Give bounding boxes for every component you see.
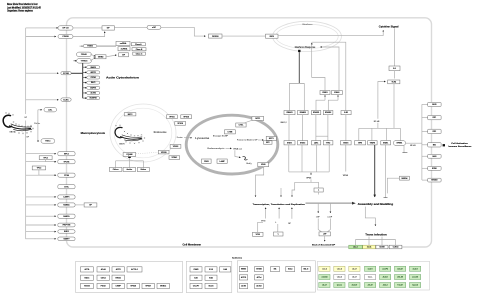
- wire to TIM-1: [38, 140, 39, 142]
- gene box IFIT1 on membrane: [428, 115, 441, 119]
- svg-text:PDCD: PDCD: [101, 286, 107, 288]
- gene box ssRNA: [116, 41, 130, 45]
- legend1 gene box PDCD y283.4: [97, 283, 109, 288]
- svg-text:Cell Activation: Cell Activation: [451, 142, 468, 145]
- gene box NPC1 on membrane: [58, 152, 75, 156]
- gene box NEDD4: [400, 176, 410, 180]
- gene box dsRNA: [118, 47, 130, 51]
- legend4 box r2c4: [365, 275, 376, 280]
- svg-text:Macropinocytosis: Macropinocytosis: [81, 131, 106, 135]
- gene box LAMP1 on membrane: [58, 195, 75, 199]
- gene box GP sensed: [119, 53, 129, 57]
- svg-text:CD63: CD63: [204, 161, 209, 163]
- legend3 gene box NEMO y266.5: [239, 267, 247, 272]
- svg-text:TPC2: TPC2: [37, 168, 42, 170]
- wire up arrow into transcription at x265.6: [265, 208, 267, 214]
- gene box sGP: [147, 25, 161, 29]
- legend4 box r2c5: [380, 275, 391, 280]
- svg-text:ACTA: ACTA: [84, 268, 90, 271]
- svg-text:CHM1: CHM1: [193, 269, 198, 271]
- wire converge arrow to VP35: [310, 172, 312, 175]
- gene box VAMP7 on membrane: [58, 237, 75, 241]
- svg-text:STX6B: STX6B: [256, 269, 262, 271]
- svg-text:Fusion: Fusion: [177, 137, 183, 139]
- wire IFNA1 from IFNGR2: [328, 100, 338, 110]
- wire bracket to IFITM1: [422, 167, 428, 169]
- svg-text:ITGAV: ITGAV: [81, 53, 88, 56]
- gene box VPS16: [181, 115, 192, 119]
- svg-text:VPS11: VPS11: [169, 116, 175, 118]
- gene box trans green: [349, 245, 362, 249]
- up arrowhead at interferon elbow: [311, 43, 313, 45]
- svg-text:GP 1/2: GP 1/2: [62, 28, 69, 30]
- wire NF-kB up branch into TLR4: [378, 82, 386, 119]
- gene box VPS11: [167, 115, 178, 119]
- gene box lysosome bottom 1: [202, 159, 212, 163]
- svg-text:Endosomolysis: Endosomolysis: [208, 148, 225, 150]
- wire trans bracket drop x382.0: [381, 240, 383, 246]
- wire L elbow: [277, 224, 279, 232]
- svg-text:CHMP: CHMP: [116, 286, 122, 288]
- legend3 gene box ACTB y283.4: [239, 283, 247, 288]
- svg-text:RAB7A: RAB7A: [63, 215, 70, 218]
- wire NFkB bracket: [359, 127, 401, 129]
- wire DDX58 to IRF3: [222, 35, 266, 37]
- wire thick line drop ssGP: [329, 203, 331, 213]
- wire CD209 elbow up to GP box: [73, 32, 105, 37]
- svg-text:MVB12: MVB12: [160, 286, 166, 288]
- wire bracket drop drug3: [142, 161, 144, 168]
- svg-text:LAMP: LAMP: [220, 160, 226, 163]
- svg-text:Trans infection: Trans infection: [365, 233, 387, 236]
- wire arrow into TYRO3: [74, 60, 77, 62]
- wire VP40 down to transcription: [256, 167, 264, 197]
- svg-text:RAC1: RAC1: [84, 276, 89, 279]
- svg-text:PtdSer: PtdSer: [34, 122, 40, 125]
- wire secreted GP to end label: [324, 236, 326, 241]
- svg-text:Lysosome: Lysosome: [195, 138, 210, 140]
- wire receptor to STAT at x289.0: [288, 115, 290, 141]
- gene box Tetherin: [124, 113, 136, 116]
- svg-text:Class A: Class A: [135, 43, 142, 46]
- nucleus inner ellipse: [276, 24, 338, 49]
- wire IFNA1 up elbow arrow into interferon response: [320, 47, 339, 91]
- wire RAB5A to extra box: [75, 204, 84, 206]
- svg-text:Actin Cytoskeleton: Actin Cytoskeleton: [106, 76, 139, 80]
- wire bracket to actin gene RAC1: [83, 82, 87, 84]
- legend1 gene box MVB12 y283.4: [157, 283, 169, 288]
- wire up arrow into transcription at x279.1: [278, 208, 280, 214]
- svg-text:VPS33: VPS33: [173, 146, 179, 148]
- legend rect 2: [186, 261, 232, 292]
- svg-text:RAB5A: RAB5A: [63, 204, 70, 207]
- svg-text:TYRO3: TYRO3: [81, 61, 89, 63]
- svg-text:DDX58: DDX58: [212, 36, 219, 38]
- wire IFNB1 from IFNGR: [316, 100, 325, 110]
- gene box STAT1: [284, 141, 295, 145]
- nucleus outer ellipse: [273, 21, 342, 51]
- gene box VPS39: [158, 150, 169, 154]
- svg-text:ACT01: ACT01: [241, 276, 246, 279]
- svg-text:Cell Membrane: Cell Membrane: [183, 244, 202, 246]
- wire ISG up arrow into nucleus: [311, 45, 313, 78]
- gene box ACTR2: [87, 91, 100, 94]
- receptor TYRO3 on membrane: [77, 59, 92, 64]
- gene box L product: [274, 232, 284, 236]
- legend1 gene box CDC4 y275.1: [97, 275, 109, 280]
- svg-text:TIM-1: TIM-1: [45, 141, 51, 143]
- wire trans bracket drop x369.0: [368, 240, 370, 246]
- svg-text:PIKFYVE: PIKFYVE: [63, 225, 71, 227]
- svg-text:TRAF6: TRAF6: [370, 141, 375, 144]
- svg-text:Class B: Class B: [136, 49, 143, 51]
- endosome outer ellipse: [110, 104, 176, 162]
- legend4 box r3c1: [319, 283, 330, 288]
- gene box trans yellow: [363, 245, 376, 249]
- svg-text:unnodG: unnodG: [412, 277, 419, 279]
- svg-text:ITGB1: ITGB1: [87, 46, 94, 48]
- svg-text:GRB2: GRB2: [98, 57, 104, 59]
- wire arrow into ITGB1: [80, 45, 83, 47]
- legend1 gene box ACTR y266.8: [112, 267, 124, 272]
- wire receptor to STAT at x302.6: [302, 115, 304, 141]
- gene box secreted GP: [319, 232, 330, 236]
- wire sGP elbow down to DDX58: [161, 27, 206, 36]
- wire NF-kB line continues: [377, 123, 379, 129]
- wire to lysosome label: [184, 137, 192, 139]
- svg-text:TPCN1: TPCN1: [63, 161, 69, 163]
- svg-text:STAT2: STAT2: [300, 141, 305, 144]
- gene box IFIT2 on membrane: [428, 129, 441, 134]
- svg-text:NPC1: NPC1: [64, 153, 69, 155]
- svg-text:NP: NP: [288, 223, 291, 225]
- wire fence rung: [316, 135, 328, 137]
- receptor CD36 on membrane: [83, 44, 96, 47]
- wire nucleus down thick: [298, 52, 300, 83]
- svg-text:IFNAR2: IFNAR2: [300, 111, 306, 114]
- svg-text:ACsB: ACsB: [101, 268, 107, 271]
- gene box Class B: [132, 48, 146, 51]
- svg-text:STAT1: STAT1: [287, 141, 292, 144]
- black square cell activation: [443, 144, 445, 146]
- wire assembly elbow to trans infection: [365, 207, 375, 226]
- receptor box IFNAR1: [284, 111, 295, 115]
- svg-text:MX1: MX1: [433, 144, 436, 146]
- wire receptor to STAT at x345.9: [345, 115, 347, 141]
- receptor box IFNAR2: [298, 111, 309, 115]
- svg-text:CD209: CD209: [62, 36, 69, 38]
- wire bracket to actin gene DIAPH1: [83, 87, 87, 89]
- wire fusion arrow to NPC1 right: [258, 139, 264, 141]
- svg-text:GP2: GP2: [266, 142, 269, 144]
- gene box CTSB lysosome: [225, 130, 236, 134]
- drug box 3: [137, 168, 149, 172]
- legend1 gene box CHMP y283.4: [112, 283, 124, 288]
- gene box NCKIPSD: [87, 97, 100, 100]
- svg-text:abc-1: abc-1: [353, 247, 357, 249]
- svg-text:STAT3: STAT3: [343, 141, 348, 144]
- receptor ITGAV on membrane: [77, 52, 92, 57]
- gene box STAT3: [341, 141, 352, 145]
- svg-text:Organism: Homo sapiens: Organism: Homo sapiens: [7, 8, 33, 12]
- svg-text:ACTB: ACTB: [241, 285, 246, 288]
- svg-text:sGP: sGP: [152, 27, 157, 29]
- inhibition tee under chloroquine: [128, 157, 131, 158]
- wire TPC1 elbow to column: [46, 160, 56, 162]
- svg-text:LAMP1: LAMP1: [63, 196, 69, 199]
- receptor CLEC4G on membrane: [61, 98, 71, 101]
- svg-text:Immune Surveillance: Immune Surveillance: [448, 146, 472, 148]
- svg-text:RHOA: RHOA: [116, 276, 122, 279]
- svg-text:L: L: [278, 234, 279, 236]
- wire trans infection stem 2: [381, 237, 383, 240]
- gene box TYK2: [323, 141, 333, 145]
- receptor box IL6R: [341, 111, 351, 115]
- svg-text:VP40: VP40: [261, 163, 265, 166]
- svg-text:NEMO: NEMO: [241, 269, 247, 271]
- legend4 box r1c7: [410, 266, 421, 271]
- legend1 gene box RAC1 y275.1: [81, 275, 94, 280]
- gene box VP30 product: [253, 232, 264, 236]
- legend2 gene box IstB y275.1: [190, 275, 202, 280]
- wire GP box to sGP box: [114, 27, 147, 29]
- wire nucleus bracket: [289, 82, 304, 84]
- wire label elbow down to IL6R box: [312, 42, 346, 110]
- svg-text:EBOV: EBOV: [119, 143, 125, 145]
- gene box EIF2AK2 on membrane: [428, 178, 441, 182]
- wire NFkB bracket drop x358.8: [358, 128, 360, 140]
- svg-text:IFNB1: IFNB1: [322, 92, 327, 94]
- gene box STAT2: [298, 141, 308, 145]
- svg-text:IFNAR1: IFNAR1: [286, 111, 292, 114]
- wire bracket to EIF2AK2: [422, 179, 428, 181]
- endosome inner ellipse: [114, 108, 172, 158]
- wire NFkB bracket drop x386.5: [386, 128, 388, 140]
- wire chloroquine bracket: [116, 160, 144, 162]
- wire bracket to actin gene ACTR2: [83, 92, 87, 94]
- svg-text:IRAK1: IRAK1: [383, 141, 388, 144]
- wire up arrow into transcription at x291.9: [291, 208, 293, 214]
- gene box PIKFYVE on membrane: [58, 223, 75, 227]
- svg-text:Endosome: Endosome: [154, 131, 168, 134]
- wire endosomolysis to RNAout: [226, 147, 232, 149]
- svg-text:GP: GP: [24, 117, 27, 119]
- wire TYRO3 to GRB2: [91, 58, 96, 61]
- gene box GRB2: [95, 55, 106, 59]
- svg-text:VPS37: VPS37: [145, 286, 151, 288]
- wire trans infection bracket: [356, 239, 396, 241]
- inhibition tee below NFKB1: [402, 152, 407, 154]
- gene box RAB5A on membrane: [58, 203, 75, 207]
- legend4 box r3c7: [410, 283, 421, 288]
- wire bracket to actin gene NCKIPSD: [83, 97, 87, 99]
- wire VP35 to transcription arrow: [292, 182, 295, 197]
- EBOV virion filament icon (extracellular): [3, 115, 32, 130]
- gene box DDX58: [209, 34, 223, 38]
- svg-text:CTSB: CTSB: [227, 131, 233, 133]
- released nucleocapsid squiggle: [243, 157, 248, 160]
- gene box IFNB1: [320, 91, 330, 95]
- legend4 box r3c2: [334, 283, 345, 288]
- legend4 box r3c3: [349, 283, 360, 288]
- svg-text:GP: GP: [26, 136, 29, 138]
- receptor box IFNGR1: [312, 111, 321, 115]
- receptor TIM-1: [41, 139, 55, 143]
- svg-text:TLR4: TLR4: [392, 81, 397, 84]
- gene box OAS1 on membrane: [428, 154, 441, 158]
- legend3 gene box SIA-di y266.5: [301, 267, 310, 272]
- wire trunk to RAB7A: [26, 215, 56, 217]
- svg-text:EBOV: EBOV: [10, 131, 16, 133]
- wire dashed chloroquine to VPS: [136, 152, 159, 154]
- wire GRB2 to GP sensing: [106, 55, 117, 57]
- gene box IRF3: [266, 34, 279, 38]
- legend3 gene box ACTsII y283.4: [255, 283, 264, 288]
- svg-text:Isoforms: Isoforms: [232, 257, 243, 259]
- svg-text:Assembly and Budding: Assembly and Budding: [358, 202, 394, 206]
- receptor FCGR1A on membrane: [61, 72, 71, 75]
- svg-text:EHD1: EHD1: [64, 231, 69, 233]
- legend rect 4: [318, 261, 430, 290]
- svg-text:VPS39: VPS39: [161, 152, 167, 154]
- svg-text:Escape E-NP: Escape E-NP: [213, 135, 229, 137]
- svg-text:TPC1: TPC1: [43, 157, 48, 159]
- legend4 box r1c5: [380, 266, 391, 271]
- legend3 gene box ACTsi y274.8: [255, 275, 264, 280]
- lysosome thick ring: [186, 115, 278, 174]
- thick arrow transcription to assembly: [306, 202, 353, 204]
- wire chloroquine down: [129, 158, 131, 161]
- wire IRAK down to assembly tee: [385, 145, 387, 198]
- svg-text:Bud'g: Bud'g: [247, 163, 252, 165]
- wire FCGR thick link to bracket: [71, 72, 83, 74]
- legend4 box r3c6: [395, 283, 406, 288]
- EBOV spikes (extracellular): [5, 112, 33, 134]
- svg-text:IFNGR1: IFNGR1: [313, 112, 319, 114]
- wire bracket to ISG15: [422, 103, 428, 105]
- wire ISG bracket vertical: [421, 104, 423, 180]
- legend1 gene box ACTA y266.8: [81, 267, 94, 272]
- svg-text:CD209: CD209: [379, 247, 384, 249]
- gene box RAB7A on membrane: [58, 214, 75, 218]
- wire trunk to CTSB: [26, 174, 56, 176]
- svg-text:ssRNA: ssRNA: [120, 42, 127, 45]
- legend1 gene box ACTG-1 y266.8: [127, 267, 142, 272]
- gene box L polymerase: [314, 188, 323, 192]
- legend4 box r1c2: [334, 266, 345, 271]
- svg-text:SIA-4: SIA-4: [288, 268, 292, 271]
- wire trunk to CD209: [26, 36, 56, 38]
- wire trunk to EHD1: [26, 231, 56, 233]
- wire trunk to PIKFYVE: [26, 224, 56, 226]
- svg-text:BST2: BST2: [128, 114, 133, 116]
- gene box CTSL lysosome: [236, 123, 246, 127]
- gene box VPS18: [175, 121, 186, 125]
- gene box TPC2 helper: [32, 166, 45, 170]
- svg-text:IFNA1: IFNA1: [334, 91, 339, 94]
- gene box CDC42: [87, 76, 100, 79]
- svg-text:Niclos: Niclos: [141, 169, 146, 171]
- wire TLR4 main down: [393, 84, 395, 129]
- wire extracellular trunk vertical: [25, 28, 27, 114]
- svg-text:ssGP: ssGP: [327, 217, 333, 219]
- wire eGP down to secreted box: [318, 219, 321, 232]
- svg-text:Chloro: Chloro: [113, 169, 120, 171]
- wire bracket drop IFNAR2: [303, 83, 305, 110]
- wire VP35 elbow bar: [295, 179, 311, 182]
- legend4 box r1c4: [365, 266, 376, 271]
- wire trans infection stem 1: [368, 237, 370, 240]
- svg-text:VtA1: VtA1: [209, 276, 213, 279]
- wire NFKB1 to ISG bracket: [406, 142, 422, 144]
- gene box RAC1: [87, 81, 100, 84]
- gene box NPC1 on lysosome edge: [252, 117, 264, 121]
- svg-text:CLEC: CLEC: [63, 99, 69, 101]
- svg-text:JAK1,2: JAK1,2: [280, 121, 286, 124]
- svg-text:TYK2: TYK2: [326, 142, 330, 144]
- svg-text:Amilor: Amilor: [126, 168, 132, 171]
- wire TPC2 elbow to column: [39, 170, 56, 175]
- svg-text:IFIT2: IFIT2: [433, 131, 437, 133]
- receptor AXL: [44, 108, 57, 112]
- wire extra arrow to transcription label: [280, 188, 282, 197]
- legend1 gene box TSG10 y283.4: [81, 283, 94, 288]
- legend4 box r2c1: [319, 275, 330, 280]
- svg-text:JAK1: JAK1: [314, 141, 318, 144]
- svg-text:IRF9: IRF9: [358, 142, 362, 144]
- legend4 box r1c3: [349, 266, 360, 271]
- wire bracket to MX1: [422, 144, 428, 146]
- legend rect 1: [76, 261, 183, 292]
- svg-text:ACTG-1: ACTG-1: [131, 268, 138, 271]
- gene box EHD1 on membrane: [58, 230, 75, 233]
- inhibition tee above assembly: [384, 197, 388, 199]
- gene box GP: [102, 26, 114, 30]
- svg-text:CLEC4: CLEC4: [393, 246, 399, 249]
- legend4 box r1c1: [319, 266, 330, 271]
- svg-text:IFITM1: IFITM1: [432, 168, 437, 170]
- svg-text:ACTsII: ACTsII: [256, 285, 262, 288]
- svg-text:NF-kB: NF-kB: [410, 145, 416, 147]
- wire bracket to actin gene WASF2: [83, 66, 87, 68]
- wire RNAout down arrow: [235, 150, 241, 157]
- gene box VPS41: [169, 156, 180, 160]
- svg-text:IL48: IL48: [223, 268, 227, 271]
- legend1 gene box VPS28 y283.4: [127, 283, 139, 288]
- drug box Chloroquine: [123, 153, 136, 157]
- wire STAT drop at x329.2: [328, 145, 330, 172]
- svg-text:VP24: VP24: [343, 174, 349, 177]
- svg-text:VAMP7: VAMP7: [63, 237, 69, 240]
- svg-text:dsRNA: dsRNA: [121, 47, 128, 50]
- svg-text:Fusion to Ebola's GP: Fusion to Ebola's GP: [237, 138, 258, 141]
- gene box IFITM1 on membrane: [428, 166, 441, 170]
- gene box Class A: [131, 43, 145, 46]
- svg-text:NEDD4: NEDD4: [402, 177, 408, 180]
- wire cytokine label to IL6 box: [393, 28, 395, 66]
- wire bracket to OAS1: [422, 155, 428, 157]
- gene box MX1 on membrane: [428, 143, 441, 147]
- svg-text:eGP: eGP: [316, 217, 321, 219]
- legend4 box r1c6: [395, 266, 406, 271]
- legend2 gene box CHM1 y266.8: [190, 267, 202, 272]
- wire ssGP down to secreted box: [328, 219, 331, 232]
- wire bracket drop IFNAR1: [288, 83, 290, 110]
- wire bracket to IFIT1: [422, 117, 428, 119]
- svg-text:ChmP7: ChmP7: [193, 286, 199, 288]
- svg-text:RNA out: RNA out: [234, 147, 243, 150]
- legend2 gene box ChmP7 y283.4: [190, 283, 202, 288]
